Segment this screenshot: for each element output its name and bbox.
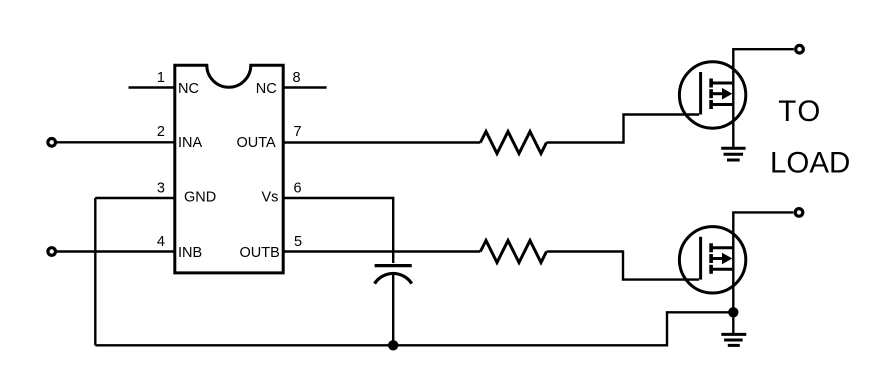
svg-text:INA: INA <box>178 135 203 151</box>
ground rail wire (bottom) <box>95 312 728 345</box>
Q1 channel segment (body) <box>709 89 713 98</box>
svg-text:OUTA: OUTA <box>237 135 277 151</box>
pin 8 stub <box>284 86 327 88</box>
Q1 channel segment (source) <box>709 100 713 109</box>
ground bar 2 <box>724 153 744 156</box>
input terminal B (open circle) <box>48 248 56 256</box>
wire INB terminal to pin 4 <box>56 250 174 252</box>
svg-text:8: 8 <box>293 70 301 86</box>
junction dot where ground rail meets Q2 source <box>728 307 738 317</box>
resistor R2 <box>480 241 546 263</box>
wire INA terminal to pin 2 <box>56 141 174 143</box>
resistor R1 <box>480 132 546 154</box>
output terminal A (open circle) <box>796 45 804 53</box>
ground symbol at Q1 source: bar 1 <box>721 147 745 150</box>
Q1 drain/source bus and drain lead up <box>733 49 794 148</box>
svg-text:LOAD: LOAD <box>770 146 850 179</box>
svg-text:4: 4 <box>157 234 165 250</box>
svg-text:3: 3 <box>157 181 165 197</box>
capacitor C1 top plate <box>375 264 412 267</box>
wire GND vertical down <box>94 198 96 345</box>
capacitor C1 curved bottom plate <box>375 273 412 283</box>
svg-text:INB: INB <box>178 245 202 261</box>
Q2 channel segment (source) <box>709 265 713 274</box>
ground bar 3 <box>727 159 740 162</box>
wire OUTA pin 7 to resistor R1 <box>284 141 480 143</box>
Q1 channel segment (drain) <box>709 79 713 88</box>
svg-text:2: 2 <box>157 124 165 140</box>
ground bar 3 <box>728 344 740 347</box>
wire C1 to ground rail <box>392 274 394 346</box>
wire R2 to Q2 gate (step down) <box>547 252 700 280</box>
svg-text:NC: NC <box>256 81 277 97</box>
output terminal B (open circle) <box>795 209 803 217</box>
transistor Q1 (top MOSFET) circle <box>679 62 745 128</box>
svg-text:NC: NC <box>178 81 199 97</box>
svg-text:7: 7 <box>294 124 302 140</box>
Q1 drain stub <box>711 82 733 85</box>
Q1 body stub with arrow <box>711 92 723 95</box>
svg-text:GND: GND <box>184 190 216 206</box>
svg-text:TO: TO <box>778 95 822 128</box>
Q2 source stub <box>711 268 733 271</box>
Q2 gate bar <box>699 237 702 280</box>
wire OUTB pin 5 to resistor R2 <box>284 250 480 252</box>
ground symbol at Q2 source: bar 1 <box>721 333 746 336</box>
input terminal A (open circle) <box>48 139 56 147</box>
svg-text:OUTB: OUTB <box>240 245 280 261</box>
svg-text:Vs: Vs <box>262 190 279 206</box>
svg-text:5: 5 <box>294 234 302 250</box>
Q2 body stub with arrow <box>711 257 723 260</box>
wire R1 to Q1 gate (step up) <box>547 115 700 143</box>
Q2 body arrow <box>722 253 732 265</box>
transistor Q2 (bottom MOSFET) circle <box>679 227 745 293</box>
Q2 drain/source bus and drain lead up <box>733 212 793 334</box>
Q1 body arrow <box>722 88 732 100</box>
Q2 channel segment (drain) <box>709 243 713 252</box>
Q1 source stub <box>711 103 733 106</box>
wire Vs pin 6 right then down to capacitor C1 <box>284 198 393 263</box>
IC U1 body (8-pin driver with top notch) <box>175 65 283 273</box>
Q2 drain stub <box>711 246 733 249</box>
svg-text:6: 6 <box>294 181 302 197</box>
Q1 gate bar <box>699 72 702 115</box>
pin 3 GND wire left <box>95 197 174 199</box>
junction dot on ground rail at C1 <box>388 340 398 350</box>
ground bar 2 <box>724 339 743 342</box>
svg-text:1: 1 <box>157 70 165 86</box>
pin 1 stub <box>129 86 175 88</box>
Q2 channel segment (body) <box>709 254 713 263</box>
